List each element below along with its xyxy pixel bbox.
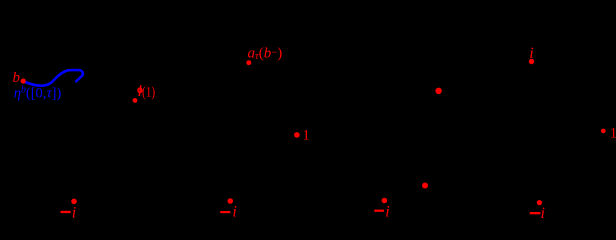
svg-text:i: i [541, 205, 545, 218]
svg-text:i: i [529, 45, 533, 62]
svg-text:i: i [385, 203, 389, 218]
svg-text:1: 1 [303, 128, 310, 144]
svg-text:(1): (1) [142, 85, 155, 101]
svg-text:i: i [232, 204, 236, 219]
svg-text:ηb([0,τ]): ηb([0,τ]) [14, 85, 62, 102]
svg-text:b: b [13, 70, 21, 86]
svg-text:1: 1 [610, 126, 616, 142]
svg-text:aτ(b−): aτ(b−) [248, 46, 283, 63]
svg-text:i: i [72, 204, 76, 218]
